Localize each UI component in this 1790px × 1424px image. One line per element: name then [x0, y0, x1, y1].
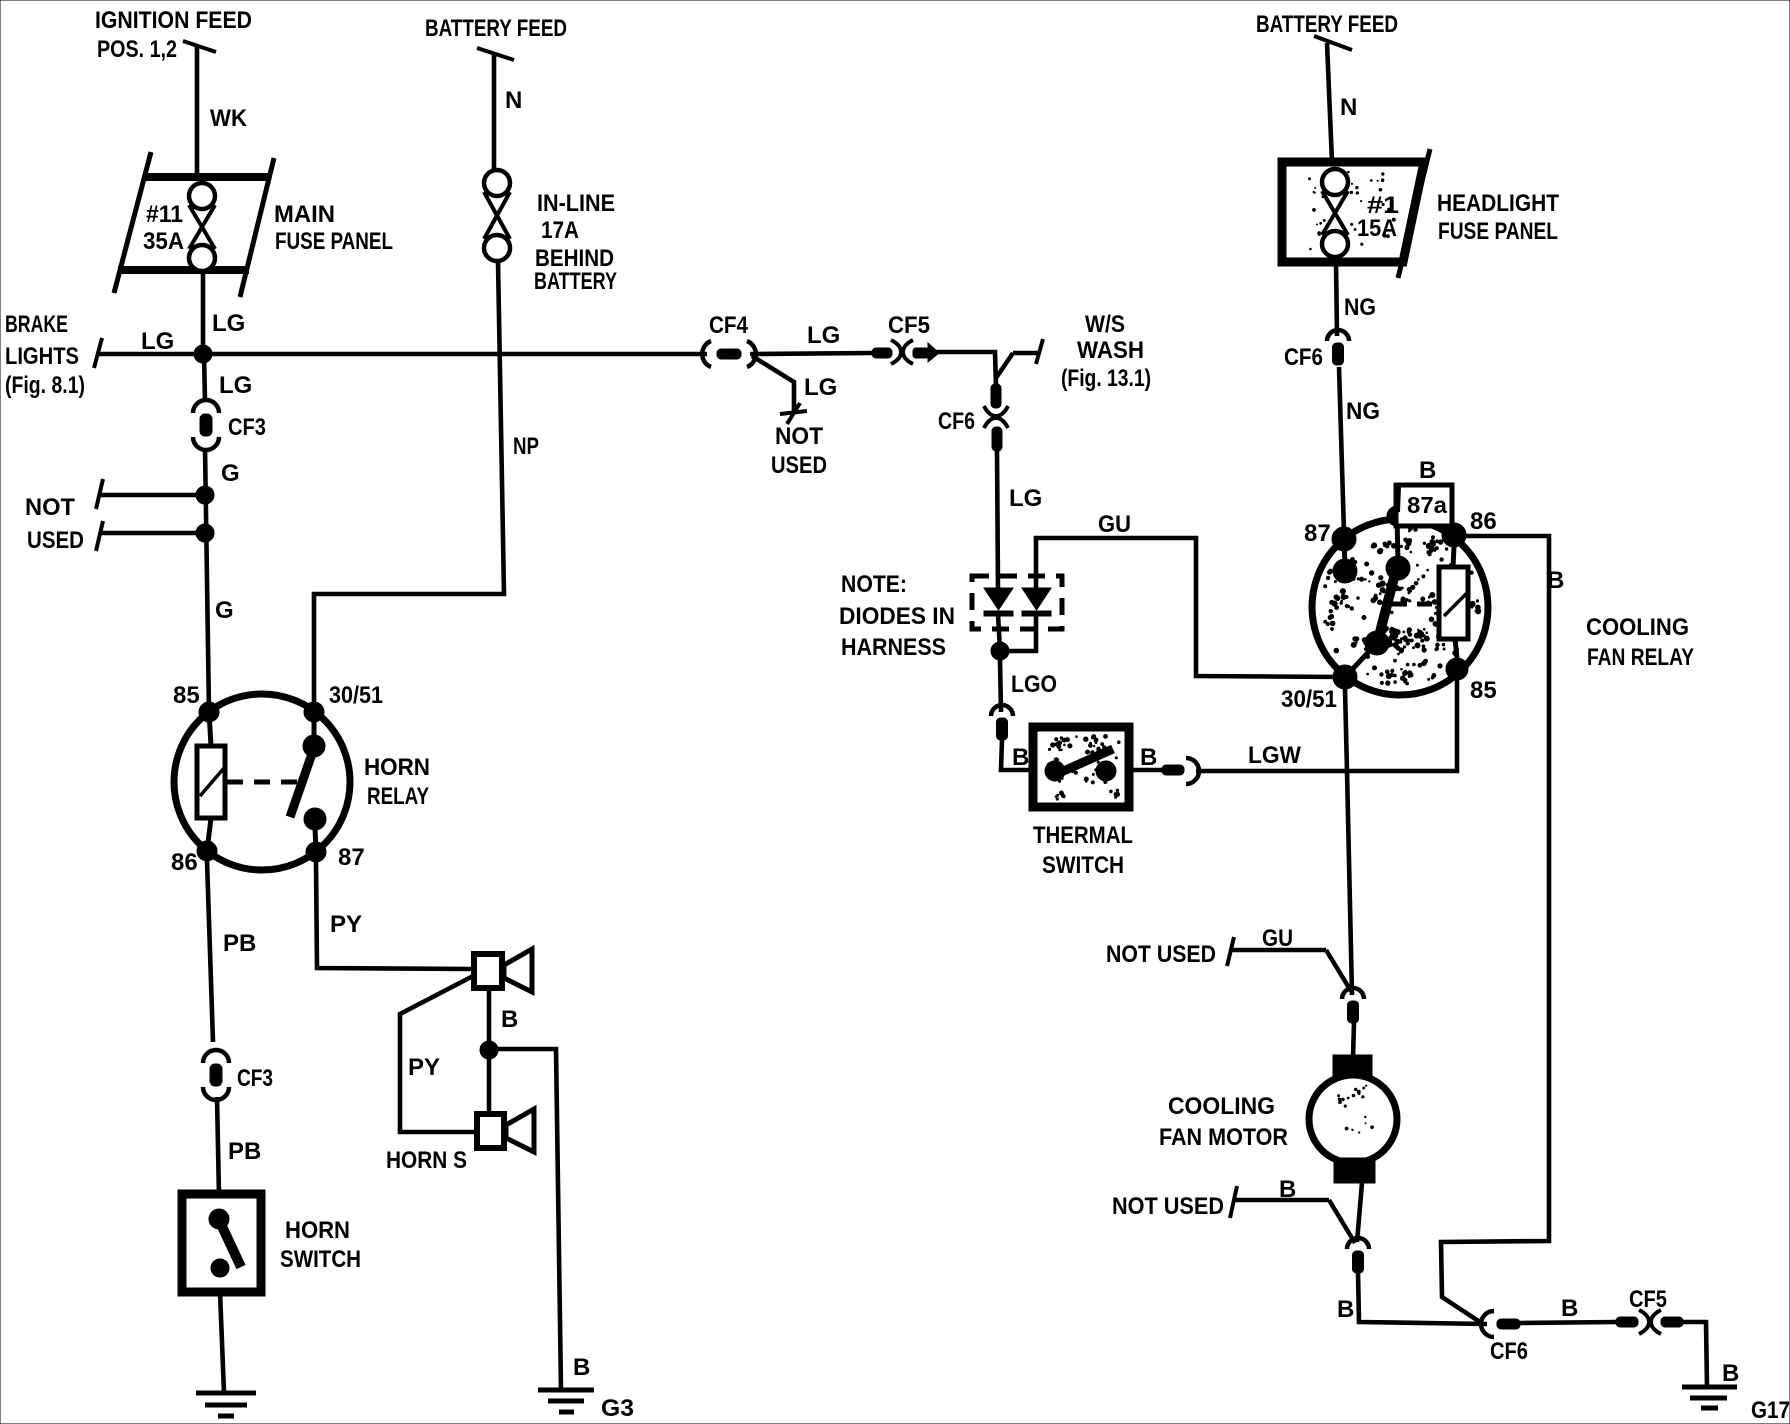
svg-text:HARNESS: HARNESS: [841, 634, 946, 661]
label #1 15A: [1357, 192, 1399, 242]
label COOLING FAN RELAY: [1586, 614, 1694, 671]
svg-text:DIODES IN: DIODES IN: [839, 603, 955, 630]
pin 86 (cooling fan relay): [1442, 523, 1466, 547]
svg-text:(Fig. 8.1): (Fig. 8.1): [5, 372, 85, 399]
svg-text:IN-LINE: IN-LINE: [537, 190, 615, 217]
ground (horn switch): [196, 1393, 256, 1416]
label IN-LINE 17A BEHIND BATTERY: [534, 190, 617, 295]
svg-text:B: B: [1279, 1176, 1296, 1203]
horn 1: [474, 949, 532, 992]
pin 86 (horn relay): [197, 841, 217, 861]
fuse in-line 17A: [484, 170, 510, 261]
wire LG junction to CF3: [204, 354, 205, 402]
svg-text:IGNITION FEED: IGNITION FEED: [95, 7, 252, 34]
wire diode outputs to LGO node: [998, 614, 1036, 651]
svg-text:LG: LG: [219, 372, 252, 399]
wire junction to horn 2: [487, 1050, 492, 1114]
wire LGW to cooling fan relay 85: [1196, 678, 1457, 771]
ground G17: [1682, 1387, 1790, 1424]
pin 30/51 (cooling fan relay): [1333, 665, 1357, 689]
svg-text:RELAY: RELAY: [367, 783, 429, 810]
connector CF5 (bottom): [1616, 1310, 1683, 1334]
pin 87 (horn relay): [306, 842, 326, 862]
horn 2: [477, 1109, 534, 1152]
wire not-used stub 1: [96, 479, 205, 509]
wire W/S wash stub: [996, 339, 1043, 378]
wire LG stub to brake lights: [94, 338, 203, 368]
wire PY from 87 to horn 1: [316, 862, 474, 969]
svg-text:GU: GU: [1098, 511, 1131, 538]
wire horn switch to ground: [220, 1292, 224, 1393]
svg-text:CF5: CF5: [888, 312, 930, 339]
diode pack dashed harness box: [972, 576, 1062, 629]
cooling fan relay coil: [1439, 547, 1468, 658]
diode D1: [984, 588, 1013, 616]
svg-text:FAN RELAY: FAN RELAY: [1587, 644, 1694, 671]
svg-text:LG: LG: [807, 322, 840, 349]
svg-text:SWITCH: SWITCH: [280, 1246, 361, 1273]
svg-text:BATTERY: BATTERY: [534, 268, 617, 295]
wire into motor: [1353, 1023, 1354, 1058]
label HEADLIGHT FUSE PANEL: [1437, 190, 1559, 245]
svg-text:SWITCH: SWITCH: [1042, 852, 1124, 879]
svg-text:NP: NP: [513, 433, 539, 460]
svg-text:BATTERY FEED: BATTERY FEED: [1256, 11, 1398, 38]
svg-text:WK: WK: [210, 105, 248, 132]
wire N battery feed: [477, 48, 514, 170]
label W/S WASH (Fig. 13.1): [1061, 311, 1151, 392]
svg-text:85: 85: [1470, 677, 1497, 704]
svg-text:COOLING: COOLING: [1168, 1093, 1275, 1120]
headlight fuse panel: [1282, 149, 1430, 278]
svg-text:CF6: CF6: [938, 408, 975, 435]
svg-text:#11: #11: [146, 201, 183, 228]
label NOTE: DIODES IN HARNESS: [839, 571, 955, 661]
svg-text:LGW: LGW: [1248, 742, 1301, 769]
svg-text:G3: G3: [601, 1395, 634, 1422]
pin 87a (cooling fan relay): [1387, 506, 1407, 526]
wire PB from 86: [207, 861, 213, 1042]
ground G3: [538, 1390, 634, 1422]
label HORN SWITCH: [280, 1217, 361, 1273]
svg-text:B: B: [1561, 1295, 1578, 1322]
svg-text:B: B: [1547, 567, 1564, 594]
svg-text:87: 87: [338, 844, 365, 871]
svg-text:35A: 35A: [143, 228, 184, 255]
svg-text:PB: PB: [223, 930, 256, 957]
wire WK from ignition feed: [183, 41, 216, 177]
svg-text:30/51: 30/51: [1281, 686, 1337, 713]
horn relay switch blade: [290, 712, 326, 852]
svg-text:NOT USED: NOT USED: [1106, 941, 1216, 968]
wire B to ground G3: [489, 1049, 561, 1390]
node junction stub 1: [196, 486, 214, 504]
svg-text:HORN S: HORN S: [386, 1147, 467, 1174]
svg-text:PY: PY: [330, 911, 362, 938]
label COOLING FAN MOTOR: [1159, 1093, 1288, 1151]
wire NG below headlight panel: [1336, 262, 1337, 336]
svg-text:CF3: CF3: [237, 1065, 273, 1092]
svg-text:LIGHTS: LIGHTS: [5, 343, 79, 370]
wire B between CF6 and CF5: [1520, 1322, 1618, 1323]
svg-text:FUSE PANEL: FUSE PANEL: [275, 228, 393, 255]
wire below motor: [1357, 1183, 1362, 1242]
svg-text:85: 85: [173, 682, 200, 709]
svg-text:GU: GU: [1262, 925, 1293, 952]
connector half (LGO): [991, 705, 1013, 740]
pin 85 (cooling fan relay): [1446, 658, 1468, 680]
svg-text:HORN: HORN: [285, 1217, 350, 1244]
svg-text:87a: 87a: [1407, 492, 1447, 518]
horn switch: [182, 1194, 261, 1292]
svg-text:30/51: 30/51: [329, 682, 383, 709]
connector CF4: [702, 341, 756, 367]
svg-text:G: G: [221, 460, 240, 487]
wire PY loop to horn 2: [400, 975, 477, 1132]
svg-text:FAN MOTOR: FAN MOTOR: [1159, 1124, 1288, 1151]
label THERMAL SWITCH: [1033, 822, 1133, 879]
svg-text:B: B: [1722, 1360, 1739, 1387]
connector (thermal out bar + arc): [1162, 758, 1199, 784]
svg-text:CF6: CF6: [1284, 344, 1323, 371]
svg-text:G17: G17: [1751, 1397, 1790, 1424]
wire NP from in-line fuse to horn relay 30/51: [314, 261, 504, 712]
label #11 35A: [143, 201, 184, 255]
svg-text:NOT: NOT: [775, 423, 823, 450]
svg-text:W/S: W/S: [1085, 311, 1125, 338]
svg-text:LGO: LGO: [1011, 671, 1057, 698]
wire B from 86 to bottom connector run: [1441, 536, 1549, 1324]
wire LG between CF4 and CF5: [750, 353, 872, 354]
wire LG below main fuse panel: [201, 270, 206, 354]
pin 85 (horn relay): [199, 702, 219, 722]
fuse #1 15A in headlight fuse panel: [1322, 169, 1348, 257]
label MAIN FUSE PANEL: [274, 201, 393, 255]
wire B down to CF6: [1358, 1272, 1487, 1324]
svg-text:B: B: [1337, 1296, 1354, 1323]
connector 87a box: [1396, 485, 1452, 526]
connector CF6 (bottom): [1481, 1311, 1520, 1337]
horn relay circle: [174, 694, 350, 870]
svg-text:CF5: CF5: [1629, 1286, 1667, 1313]
cooling fan relay switch blade: [1347, 516, 1410, 675]
connector half (above motor): [1342, 988, 1364, 1023]
svg-text:17A: 17A: [541, 217, 579, 244]
svg-text:THERMAL: THERMAL: [1033, 822, 1133, 849]
node LG junction: [194, 345, 212, 363]
wire LG CF5 to corner: [936, 352, 996, 386]
cooling fan relay 87 stub contact: [1333, 539, 1357, 583]
wire from 30/51 down to motor: [1345, 689, 1352, 995]
cooling fan relay dashed link: [1392, 602, 1437, 607]
connector CF5: [872, 340, 939, 364]
svg-text:NG: NG: [1344, 294, 1376, 321]
svg-text:15A: 15A: [1357, 215, 1397, 242]
horn relay dashed link: [227, 780, 297, 785]
svg-text:PY: PY: [408, 1054, 440, 1081]
horn relay coil: [197, 712, 225, 851]
svg-text:CF3: CF3: [228, 414, 266, 441]
svg-text:86: 86: [171, 849, 198, 876]
svg-text:HORN: HORN: [364, 754, 430, 781]
svg-text:86: 86: [1470, 508, 1497, 535]
svg-text:N: N: [1340, 94, 1357, 121]
svg-text:LG: LG: [141, 328, 174, 355]
svg-text:B: B: [1419, 457, 1436, 484]
connector CF6 (right, half): [1327, 330, 1349, 365]
svg-text:NOT USED: NOT USED: [1112, 1193, 1224, 1220]
svg-text:NOT: NOT: [25, 494, 75, 521]
wire B not-used stub (below motor): [1230, 1186, 1355, 1243]
node junction stub 2: [196, 524, 214, 542]
wire GU not-used stub: [1227, 937, 1351, 991]
svg-text:B: B: [1140, 744, 1157, 771]
wire LG down to diode pack: [997, 450, 998, 590]
svg-text:NOTE:: NOTE:: [841, 571, 907, 598]
wire G down to horn relay 85: [205, 448, 209, 712]
connector CF3 (lower): [203, 1050, 229, 1100]
svg-text:CF6: CF6: [1490, 1338, 1528, 1365]
svg-text:BRAKE: BRAKE: [5, 311, 68, 338]
cooling fan motor: [1309, 1055, 1397, 1183]
label BRAKE LIGHTS (Fig. 8.1): [5, 311, 85, 399]
pin 30/51 (horn relay): [304, 702, 324, 722]
fuse #11 35A in main fuse panel: [189, 183, 215, 271]
cooling fan relay circle: [1312, 519, 1488, 695]
svg-text:POS. 1,2: POS. 1,2: [97, 36, 177, 63]
svg-text:N: N: [505, 87, 522, 114]
wire B to ground G17: [1683, 1322, 1707, 1387]
connector half (below motor): [1347, 1238, 1369, 1273]
svg-text:PB: PB: [228, 1138, 261, 1165]
svg-text:(Fig. 13.1): (Fig. 13.1): [1061, 365, 1151, 392]
node LGO junction: [991, 642, 1009, 660]
svg-text:USED: USED: [771, 452, 827, 479]
wire B into thermal switch: [1001, 740, 1033, 770]
svg-text:NG: NG: [1346, 398, 1380, 425]
svg-text:MAIN: MAIN: [274, 201, 335, 228]
label NOT USED (mid): [771, 423, 827, 479]
connector CF6 (on LG drop): [984, 384, 1008, 451]
wire PB to horn switch: [217, 1097, 219, 1196]
svg-text:WASH: WASH: [1077, 337, 1144, 364]
wire B out of thermal switch: [1129, 768, 1166, 773]
svg-text:HEADLIGHT: HEADLIGHT: [1437, 190, 1559, 217]
node horn B junction: [480, 1041, 498, 1059]
diode D2: [1022, 588, 1051, 616]
label HORN RELAY: [364, 754, 430, 810]
svg-text:LG: LG: [212, 310, 245, 337]
svg-text:LG: LG: [804, 374, 837, 401]
label IGNITION FEED POS. 1,2: [95, 7, 252, 63]
pin 87 (cooling fan relay): [1332, 527, 1356, 551]
svg-text:LG: LG: [1009, 485, 1042, 512]
wire GU from diode D2 to cooling fan relay 30/51: [1036, 538, 1345, 677]
svg-text:87: 87: [1304, 520, 1331, 547]
connector CF3 (upper): [193, 400, 219, 450]
svg-text:B: B: [1012, 744, 1029, 771]
svg-text:FUSE PANEL: FUSE PANEL: [1438, 218, 1558, 245]
svg-text:B: B: [501, 1006, 518, 1033]
svg-text:CF4: CF4: [709, 312, 749, 339]
main fuse panel: [114, 152, 274, 297]
wire NG to relay 87: [1339, 367, 1344, 533]
thermal switch: [1033, 727, 1129, 807]
svg-text:B: B: [573, 1354, 590, 1381]
wire LGO down: [1000, 660, 1001, 712]
svg-text:COOLING: COOLING: [1586, 614, 1689, 641]
label NOT USED (left): [25, 494, 84, 554]
svg-text:G: G: [215, 597, 234, 624]
svg-text:USED: USED: [27, 527, 84, 554]
wire N to headlight fuse panel: [1314, 36, 1352, 162]
wire LG not-used stub from CF4: [752, 356, 807, 424]
svg-text:BATTERY FEED: BATTERY FEED: [425, 15, 567, 42]
wire B from horn 1: [487, 988, 492, 1050]
wire LG main horizontal run: [203, 352, 707, 357]
wire not-used stub 2: [96, 521, 205, 551]
